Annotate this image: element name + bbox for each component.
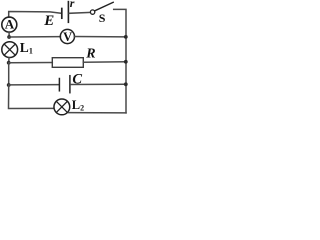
wire left column n3 to bottom corner and to lamp L2 xyxy=(9,85,54,109)
capacitor C right plate xyxy=(69,76,71,93)
node right row4 junction dot xyxy=(124,82,128,86)
node n2 junction dot xyxy=(7,61,11,65)
wire switch contact to top-right corner and down right edge xyxy=(114,9,126,113)
capacitor C left plate xyxy=(58,79,60,91)
wire row3: node n2 to resistor xyxy=(9,62,53,64)
wire battery to switch xyxy=(69,11,90,14)
battery E : long plate xyxy=(67,2,69,23)
wire row4: node n3 to capacitor xyxy=(9,84,59,86)
node right row3 junction dot xyxy=(124,60,128,64)
switch S pivot circle xyxy=(90,10,94,14)
node n3 junction dot xyxy=(7,83,11,87)
wire left column n2 to n3 xyxy=(8,63,10,85)
svg-text:V: V xyxy=(63,30,72,44)
wire row2: node n1 to voltmeter xyxy=(9,36,60,38)
switch S blade xyxy=(95,2,113,11)
node n1 junction dot xyxy=(7,35,11,39)
ammeter A1 xyxy=(2,17,17,32)
resistor R xyxy=(52,58,83,68)
wire L1 to node n2 xyxy=(8,58,10,63)
wire voltmeter to right edge xyxy=(74,36,125,38)
node right row2 junction dot xyxy=(124,35,128,39)
battery E internal resistance r : short plate xyxy=(61,9,63,19)
svg-text:R: R xyxy=(85,46,95,61)
wire top-left corner to battery xyxy=(9,12,62,18)
svg-text:A: A xyxy=(5,17,15,32)
svg-text:S: S xyxy=(99,11,106,25)
wire lamp L2 to bottom-right corner xyxy=(69,112,126,114)
svg-text:r: r xyxy=(70,0,75,10)
voltmeter V1 xyxy=(60,29,74,44)
wire resistor to right edge xyxy=(83,61,126,63)
svg-text:E: E xyxy=(43,13,54,29)
wire ammeter to node n1 xyxy=(8,32,10,37)
wire capacitor to right edge xyxy=(71,83,126,85)
lamp L2 xyxy=(54,99,70,115)
lamp L1 xyxy=(2,42,18,58)
